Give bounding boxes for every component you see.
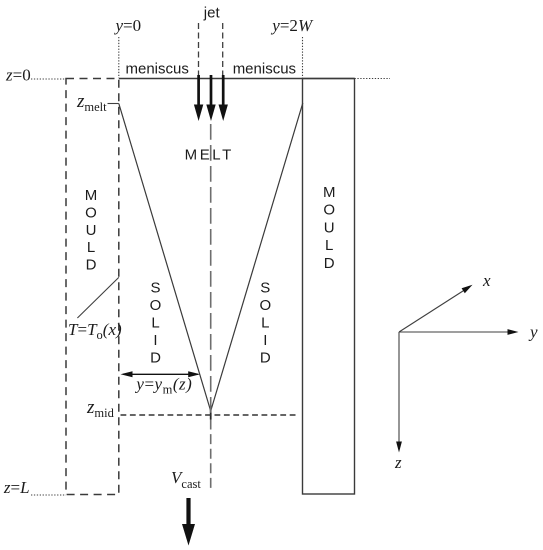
- svg-text:y: y: [528, 323, 538, 342]
- y=0 dotted line: [118, 37, 120, 78]
- mould right solid outline: [303, 79, 355, 495]
- svg-text:zmelt: zmelt: [76, 91, 107, 114]
- jet arrow 1: [194, 75, 203, 121]
- apex tick: [210, 410, 212, 420]
- centerline dashed lower: [210, 420, 212, 493]
- y=2W dotted line: [302, 37, 304, 78]
- svg-text:MOULD: MOULD: [323, 184, 336, 272]
- svg-text:T=To(x): T=To(x): [68, 320, 122, 342]
- y axis: [399, 331, 508, 333]
- svg-text:x: x: [482, 271, 491, 290]
- svg-text:zmid: zmid: [86, 397, 115, 420]
- x axis: [399, 290, 465, 332]
- shell width double arrow: [121, 371, 201, 377]
- svg-text:y=2W: y=2W: [270, 16, 314, 35]
- mould left dashed outline: [66, 79, 119, 495]
- jet dashed line right: [222, 23, 224, 75]
- svg-text:z=L: z=L: [3, 478, 30, 497]
- right solidification front: [211, 103, 303, 411]
- axis origin: [396, 285, 518, 453]
- jet arrow 2: [206, 75, 215, 121]
- meniscus line: [119, 78, 355, 80]
- svg-text:jet: jet: [203, 5, 221, 22]
- z_melt tick: [108, 103, 119, 105]
- left solidification front: [119, 104, 211, 412]
- svg-text:meniscus: meniscus: [233, 61, 296, 78]
- jet dashed line left: [198, 23, 200, 75]
- T=To(x) pointer line: [77, 277, 118, 318]
- centerline dashed upper: [210, 124, 212, 415]
- z=L dotted line: [31, 494, 66, 496]
- svg-text:y=ym(z): y=ym(z): [134, 375, 192, 397]
- z_mid dashed line: [121, 414, 300, 416]
- svg-text:MOULD: MOULD: [85, 187, 98, 274]
- svg-text:Vcast: Vcast: [171, 468, 201, 491]
- z=0 dotted line: [31, 78, 66, 80]
- svg-text:meniscus: meniscus: [126, 61, 189, 78]
- z axis: [398, 332, 400, 442]
- svg-text:y=0: y=0: [114, 16, 142, 35]
- meniscus dotted extension: [355, 78, 391, 80]
- svg-text:MELT: MELT: [185, 146, 234, 163]
- svg-text:z=0: z=0: [5, 66, 31, 85]
- svg-text:z: z: [394, 453, 402, 472]
- jet arrow 3: [219, 75, 228, 121]
- V_cast arrow: [182, 498, 195, 546]
- svg-text:SOLID: SOLID: [150, 279, 162, 366]
- svg-text:SOLID: SOLID: [259, 280, 271, 367]
